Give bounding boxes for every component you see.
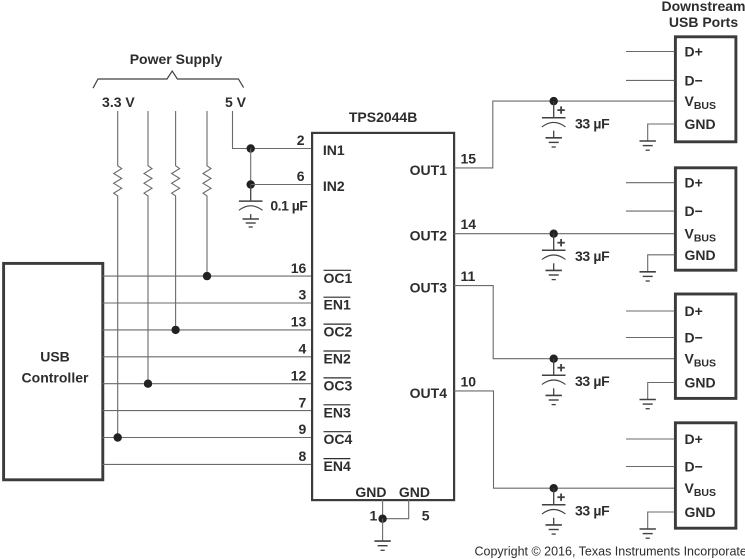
- node C5 junction: [550, 484, 558, 492]
- capacitor C4 33uF bulk: [542, 359, 566, 396]
- USB port 1: [675, 37, 736, 142]
- svg-text:EN1: EN1: [324, 297, 351, 313]
- svg-text:GND: GND: [685, 247, 716, 263]
- wire 5V supply to IN1: [233, 111, 312, 149]
- svg-text:OUT3: OUT3: [410, 280, 448, 296]
- USB port 4: [675, 423, 736, 528]
- wire OUT3 to VBUS: [454, 286, 675, 359]
- resistor R2 pull-up 3.3V: [144, 111, 152, 384]
- resistor R4 pull-up 3.3V: [203, 111, 211, 276]
- wire GND port 2: [648, 255, 675, 272]
- ground: [546, 525, 562, 534]
- pin EN2 (active low): [324, 351, 351, 367]
- svg-text:OC3: OC3: [324, 377, 353, 393]
- svg-text:EN3: EN3: [324, 404, 351, 420]
- svg-text:11: 11: [461, 268, 476, 284]
- wire OC1 control line: [103, 275, 312, 277]
- ground: [546, 138, 562, 147]
- svg-text:OUT2: OUT2: [410, 228, 448, 244]
- pin EN1 (active low): [324, 297, 351, 313]
- svg-text:4: 4: [299, 341, 307, 357]
- svg-text:3: 3: [299, 287, 307, 303]
- svg-text:D−: D−: [685, 72, 703, 88]
- svg-text:5: 5: [422, 508, 430, 524]
- node R1-OC4 junction: [114, 433, 122, 441]
- ground port 2: [640, 272, 656, 281]
- pin OC3 (active low): [324, 377, 353, 393]
- wire OC2 control line: [103, 329, 312, 331]
- ground IC GND: [374, 541, 390, 550]
- wire OC4 control line: [103, 437, 312, 439]
- svg-text:EN4: EN4: [324, 458, 351, 474]
- svg-text:GND: GND: [685, 375, 716, 391]
- label Downstream USB Ports: [661, 0, 745, 30]
- wire OUT4 to VBUS: [454, 391, 675, 488]
- wire EN4 control line: [103, 463, 312, 465]
- wire GND port 4: [648, 512, 675, 529]
- svg-text:2: 2: [297, 132, 305, 148]
- node GND junction: [378, 515, 386, 523]
- svg-text:D+: D+: [685, 303, 703, 319]
- wire GND pin 5: [383, 500, 409, 519]
- wire D+ port 3: [626, 310, 674, 312]
- svg-text:OUT4: OUT4: [410, 385, 448, 401]
- svg-text:IN1: IN1: [323, 142, 345, 158]
- svg-text:D+: D+: [685, 431, 703, 447]
- svg-text:TPS2044B: TPS2044B: [349, 109, 417, 125]
- pin OC1 (active low): [324, 270, 353, 286]
- svg-text:7: 7: [299, 394, 307, 410]
- svg-text:USB: USB: [40, 349, 70, 365]
- svg-text:OC1: OC1: [324, 270, 353, 286]
- svg-text:GND: GND: [355, 484, 386, 500]
- svg-text:6: 6: [297, 168, 305, 184]
- pin OC2 (active low): [324, 324, 353, 340]
- node R4-OC1 junction: [203, 272, 211, 280]
- svg-text:IN2: IN2: [323, 178, 345, 194]
- op-amp U1 TPS2044B power switch: [312, 133, 454, 500]
- wire GND port 3: [648, 383, 675, 400]
- capacitor C2 33uF bulk: [542, 101, 566, 138]
- wire EN1 control line: [103, 302, 312, 304]
- svg-text:GND: GND: [685, 504, 716, 520]
- svg-text:D−: D−: [685, 459, 703, 475]
- svg-text:GND: GND: [399, 484, 430, 500]
- svg-text:USB Ports: USB Ports: [669, 14, 738, 30]
- wire D- port 4: [626, 466, 674, 468]
- ground: [546, 395, 562, 404]
- wire EN2 control line: [103, 356, 312, 358]
- svg-text:12: 12: [291, 367, 307, 383]
- ground port 1: [640, 141, 656, 150]
- wire D+ port 1: [626, 51, 674, 53]
- svg-text:OC4: OC4: [324, 431, 353, 447]
- wire OUT1 to VBUS: [454, 101, 675, 168]
- ground: [243, 219, 259, 227]
- svg-text:14: 14: [461, 216, 477, 232]
- node C3 junction: [550, 230, 558, 238]
- capacitor C1 0.1uF bypass: [239, 185, 263, 219]
- svg-text:33 µF: 33 µF: [575, 248, 610, 264]
- svg-text:15: 15: [461, 150, 477, 166]
- pin EN4 (active low): [324, 458, 351, 474]
- svg-text:8: 8: [299, 448, 307, 464]
- wire D- port 2: [626, 210, 674, 212]
- ground port 4: [640, 529, 656, 538]
- USB controller: [4, 263, 103, 479]
- svg-text:D−: D−: [685, 330, 703, 346]
- svg-text:GND: GND: [685, 116, 716, 132]
- svg-text:D−: D−: [685, 203, 703, 219]
- wire GND pin 1: [382, 500, 384, 519]
- USB port 3: [675, 294, 736, 398]
- wire GND to ground: [382, 519, 384, 541]
- svg-text:9: 9: [299, 421, 307, 437]
- node R2-OC3 junction: [144, 380, 152, 388]
- svg-text:D+: D+: [685, 44, 703, 60]
- svg-text:OUT1: OUT1: [410, 162, 448, 178]
- svg-text:EN2: EN2: [324, 351, 351, 367]
- wire D+ port 2: [626, 182, 674, 184]
- svg-text:10: 10: [461, 373, 477, 389]
- svg-text:1: 1: [370, 508, 378, 524]
- svg-text:Copyright © 2016, Texas Instru: Copyright © 2016, Texas Instruments Inco…: [475, 545, 745, 559]
- svg-text:5 V: 5 V: [225, 94, 247, 110]
- wire EN3 control line: [103, 410, 312, 412]
- resistor R3 pull-up 3.3V: [172, 111, 180, 330]
- pin OC4 (active low): [324, 431, 353, 447]
- svg-text:Power Supply: Power Supply: [130, 51, 223, 67]
- capacitor C3 33uF bulk: [542, 234, 566, 271]
- svg-text:33 µF: 33 µF: [575, 503, 610, 519]
- node C2 junction: [550, 97, 558, 105]
- capacitor C5 33uF bulk: [542, 488, 566, 525]
- svg-text:Downstream: Downstream: [661, 0, 745, 14]
- svg-text:3.3 V: 3.3 V: [102, 94, 135, 110]
- USB port 2: [675, 168, 736, 270]
- node IN2 junction: [247, 180, 255, 188]
- brace power supply: [93, 71, 244, 88]
- resistor R1 pull-up 3.3V: [114, 111, 122, 438]
- ground: [546, 270, 562, 279]
- svg-text:D+: D+: [685, 175, 703, 191]
- svg-text:33 µF: 33 µF: [575, 116, 610, 132]
- node IN1 junction: [247, 144, 255, 152]
- svg-text:16: 16: [291, 260, 307, 276]
- wire OUT2 to VBUS: [454, 233, 675, 235]
- node R3-OC2 junction: [171, 326, 179, 334]
- svg-text:0.1 µF: 0.1 µF: [270, 198, 308, 214]
- svg-text:13: 13: [291, 314, 307, 330]
- ground port 3: [640, 400, 656, 409]
- svg-text:33 µF: 33 µF: [575, 373, 610, 389]
- svg-text:OC2: OC2: [324, 324, 353, 340]
- wire D+ port 4: [626, 438, 674, 440]
- svg-text:Controller: Controller: [22, 369, 89, 385]
- pin EN3 (active low): [324, 404, 351, 420]
- wire D- port 1: [626, 79, 674, 81]
- wire IN1 to IN2 tie: [250, 149, 252, 185]
- wire OC3 control line: [103, 383, 312, 385]
- wire IN2: [251, 184, 312, 186]
- node C4 junction: [550, 355, 558, 363]
- wire GND port 1: [648, 124, 675, 141]
- wire D- port 3: [626, 337, 674, 339]
